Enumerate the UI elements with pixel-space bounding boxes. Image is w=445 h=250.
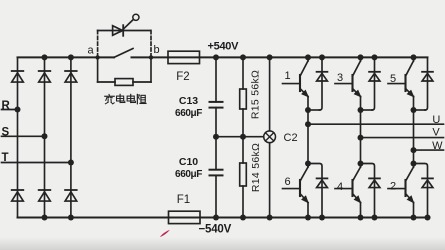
- transistor Q6: [283, 164, 309, 203]
- label b: [154, 44, 160, 56]
- label C13 value 660uF: [175, 108, 202, 119]
- svg-text:660μF: 660μF: [175, 108, 202, 119]
- svg-text:F2: F2: [176, 71, 189, 83]
- wire resistor column: [242, 57, 244, 217]
- label S: [2, 126, 10, 138]
- wire bottom DC bus (-540V rail): [18, 217, 430, 219]
- node output V: [358, 135, 364, 141]
- resistor charging 充电电阻: [115, 79, 133, 86]
- decor-skip: [0, 0, 1, 1]
- svg-text:4: 4: [337, 181, 343, 193]
- node bottom bus / D2: [425, 215, 431, 221]
- wire bottom diode branch 3: [414, 164, 428, 218]
- node bottom bus / column 3: [68, 215, 74, 221]
- node top bus / Q5: [411, 54, 417, 60]
- capacitor C13: [210, 102, 223, 108]
- svg-text:T: T: [2, 152, 9, 164]
- label C2: [284, 132, 298, 144]
- node phase R junction: [15, 107, 21, 113]
- node phase bottom 3: [411, 161, 417, 167]
- thyristor auxiliary: [113, 20, 134, 36]
- node bottom bus / D4: [372, 215, 378, 221]
- label R: [2, 100, 11, 112]
- wire charging loop left: [98, 57, 115, 82]
- svg-text:F1: F1: [177, 194, 190, 206]
- svg-text:5: 5: [390, 73, 396, 85]
- wire phase join top leg 3: [414, 109, 426, 111]
- svg-text:3: 3: [337, 72, 343, 84]
- label 4: [337, 181, 343, 193]
- wire Q5 emitter to node: [413, 97, 415, 111]
- diode rectifier top D3: [65, 71, 77, 82]
- svg-text:U: U: [432, 114, 440, 126]
- svg-text:2: 2: [390, 181, 396, 193]
- label C10 value 660uF: [175, 169, 202, 180]
- wire phase rail leg 2: [360, 110, 362, 164]
- label R15 56kOhm: [250, 70, 262, 119]
- node phase top 2a: [358, 107, 364, 113]
- label W: [432, 140, 443, 152]
- svg-text:b: b: [154, 44, 160, 56]
- node top bus / Q1: [305, 54, 311, 60]
- diode freewheel D5: [422, 72, 433, 81]
- node output U: [305, 121, 311, 127]
- node bottom bus / D6: [319, 215, 325, 221]
- node top bus / column 2: [42, 54, 48, 60]
- diode freewheel D4: [369, 178, 380, 187]
- label R14 56kOhm: [250, 143, 262, 192]
- wire phase rail leg 3: [413, 110, 415, 164]
- transistor Q4: [335, 164, 361, 203]
- transistor Q3: [335, 57, 361, 97]
- node res bottom: [240, 215, 246, 221]
- node output W: [411, 147, 417, 153]
- wire bottom diode branch 1: [308, 164, 322, 218]
- label F2: [176, 71, 189, 83]
- diode freewheel D2: [422, 178, 433, 187]
- node cap mid: [213, 134, 219, 140]
- node top bus / column 3: [68, 54, 74, 60]
- node phase S junction: [42, 133, 48, 139]
- fuse F1: [169, 211, 201, 223]
- wire Q6 emitter to bus: [307, 203, 309, 218]
- node top bus / D1: [319, 54, 325, 60]
- wire phase input R: [2, 109, 18, 111]
- wire phase input T: [2, 162, 71, 164]
- node bottom bus / Q6: [305, 215, 311, 221]
- wire dashed link b: [150, 31, 152, 57]
- wire rectifier column 3: [70, 57, 72, 217]
- transistor Q1: [283, 57, 309, 97]
- wire freewheel diode column D5: [425, 57, 428, 110]
- svg-text:a: a: [88, 45, 95, 57]
- label 5: [390, 73, 396, 85]
- node cap bottom: [213, 215, 219, 221]
- wire top DC bus (+540V rail): [18, 56, 428, 58]
- label 3: [337, 72, 343, 84]
- node cap top: [213, 54, 219, 60]
- wire capacitor column: [215, 57, 217, 217]
- node phase bottom 1: [305, 161, 311, 167]
- transistor Q5: [388, 57, 414, 97]
- resistor R15: [240, 89, 247, 109]
- diode rectifier top D1: [12, 71, 24, 82]
- wire phase join top leg 1: [308, 109, 320, 111]
- red pen mark: [160, 230, 170, 237]
- node lamp top: [267, 54, 273, 60]
- wire Q3 emitter to node: [360, 97, 362, 111]
- wire phase input S: [2, 135, 45, 137]
- label +540V: [208, 41, 240, 53]
- node res top: [240, 54, 246, 60]
- svg-text:−540V: −540V: [199, 224, 232, 236]
- wire Q1 emitter to node: [307, 97, 309, 111]
- wire lamp column: [269, 57, 271, 217]
- svg-text:S: S: [2, 126, 10, 138]
- label a: [88, 45, 95, 57]
- svg-text:V: V: [432, 127, 440, 139]
- node a: [95, 55, 99, 59]
- wire phase rail leg 1: [307, 110, 309, 164]
- node phase top 1a: [305, 107, 311, 113]
- svg-text:W: W: [432, 140, 443, 152]
- wire midpoint link: [216, 136, 264, 138]
- diode freewheel D1: [317, 72, 328, 81]
- wire bottom diode branch 2: [361, 164, 375, 218]
- wire auxiliary top branch: [98, 30, 151, 32]
- diode freewheel D6: [317, 178, 328, 187]
- wire rectifier column 2: [44, 57, 46, 217]
- node top bus / D3: [372, 54, 378, 60]
- diode freewheel D3: [369, 72, 380, 81]
- label C13: [179, 95, 198, 107]
- wire dashed link a: [97, 31, 99, 57]
- transistor Q2: [388, 164, 414, 203]
- wire Q2 emitter to bus: [413, 203, 415, 218]
- fuse F2: [168, 51, 200, 63]
- diode rectifier bottom D4: [12, 190, 24, 201]
- svg-text:R: R: [2, 100, 11, 112]
- node lamp bottom: [267, 215, 273, 221]
- label 6: [285, 176, 291, 188]
- switch contactor blade KM: [114, 49, 133, 58]
- node phase T junction: [68, 160, 74, 166]
- node res mid: [240, 134, 246, 140]
- svg-text:660μF: 660μF: [175, 169, 202, 180]
- diode rectifier bottom D6: [65, 190, 77, 201]
- node top bus / Q3: [358, 54, 364, 60]
- wire charging loop right: [133, 57, 151, 82]
- wire rectifier column 1: [17, 57, 19, 217]
- node phase bottom 2: [358, 161, 364, 167]
- terminal circle: [133, 14, 139, 20]
- capacitor C10: [210, 170, 223, 176]
- label 2: [390, 181, 396, 193]
- label 充电电阻 (charging resistor): [105, 94, 146, 103]
- node b: [149, 55, 153, 59]
- label T: [2, 152, 9, 164]
- label 1: [285, 70, 291, 82]
- lamp C2: [264, 131, 276, 143]
- svg-text:C13: C13: [179, 95, 198, 107]
- svg-text:C10: C10: [179, 156, 198, 168]
- wire freewheel diode column D1: [320, 57, 323, 110]
- svg-text:6: 6: [285, 176, 291, 188]
- svg-text:C2: C2: [284, 132, 298, 144]
- svg-text:R14 56kΩ: R14 56kΩ: [250, 143, 262, 192]
- diode rectifier bottom D5: [39, 190, 51, 201]
- label -540V: [199, 224, 232, 236]
- svg-text:+540V: +540V: [208, 41, 240, 53]
- node phase top 3a: [411, 107, 417, 113]
- node bottom bus / column 2: [42, 215, 48, 221]
- wire phase join top leg 2: [361, 109, 373, 111]
- node bottom bus / Q4: [358, 215, 364, 221]
- wire output W: [414, 149, 444, 151]
- svg-text:R15 56kΩ: R15 56kΩ: [250, 70, 262, 119]
- node bottom bus / Q2: [411, 215, 417, 221]
- wire Q4 emitter to bus: [360, 203, 362, 218]
- svg-text:1: 1: [285, 70, 291, 82]
- label U: [432, 114, 440, 126]
- label C10: [179, 156, 198, 168]
- diode rectifier top D2: [39, 71, 51, 82]
- label V: [432, 127, 440, 139]
- label F1: [177, 194, 190, 206]
- wire output U: [308, 123, 444, 125]
- wire freewheel diode column D3: [372, 57, 375, 110]
- wire output V: [361, 137, 444, 139]
- resistor R14: [240, 163, 247, 186]
